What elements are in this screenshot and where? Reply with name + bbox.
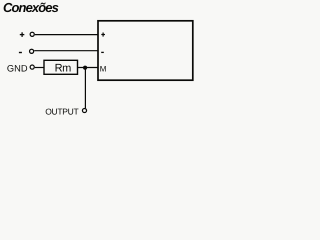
svg-text:M: M [100,65,107,74]
wire - [34,50,98,52]
module box U1 [98,21,193,80]
terminal circle GND [30,65,34,69]
junction dot node OUTPUT [83,66,87,70]
wire + [35,34,98,36]
wire junction down to output terminal [84,68,86,109]
wire Rm to M [78,67,98,69]
terminal circle + [30,32,34,36]
terminal label - [19,52,22,54]
svg-text:Conexões: Conexões [3,0,59,15]
pin label - [101,51,104,53]
wire GND to Rm [35,67,44,69]
svg-text:OUTPUT: OUTPUT [45,106,78,116]
resistor Rm box [44,60,78,74]
svg-text:Rm: Rm [55,63,72,75]
terminal circle OUTPUT [82,108,86,112]
svg-text:GND: GND [7,64,28,74]
pin label + [101,33,105,37]
terminal label + [20,32,25,37]
terminal circle - [30,49,34,53]
